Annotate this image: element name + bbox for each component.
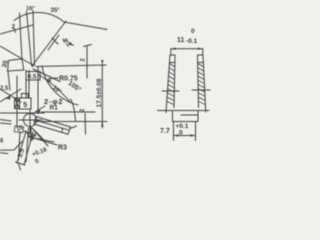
svg-text:10°: 10°	[51, 85, 62, 96]
wire: chamfer parallel segment	[48, 35, 59, 50]
tab box above 5-box	[22, 94, 29, 99]
wire: tick on upper dim extension	[84, 45, 92, 79]
wire: tick under 2 label top-left	[14, 28, 16, 33]
svg-text:+0.18: +0.18	[32, 147, 49, 158]
wire: hub bottom extra line	[24, 131, 36, 136]
wire: circle crosshair	[19, 110, 42, 133]
wire: angular dimension arc top	[14, 12, 64, 22]
wire: bar inner line	[35, 120, 70, 130]
svg-text:0.5: 0.5	[28, 74, 37, 81]
svg-text:3.5: 3.5	[17, 147, 27, 158]
wire: 35 deg flank up-right from vertex	[32, 21, 66, 66]
wire: steep drop from arc to bar end	[71, 99, 76, 121]
insert pad rectangle top-left	[8, 59, 24, 71]
svg-text:R1: R1	[50, 105, 59, 112]
box with 5	[20, 98, 32, 109]
svg-text:17.5±0.08: 17.5±0.08	[96, 78, 103, 107]
right wall hatching	[198, 64, 206, 105]
svg-text:2: 2	[12, 24, 16, 31]
svg-text:35°: 35°	[51, 8, 61, 14]
wire: crossing leaders left	[0, 89, 21, 102]
wire: hub bottom diagonals	[30, 127, 32, 141]
wire: upper-left diagonal line	[0, 25, 33, 34]
wire: plate top line	[0, 112, 44, 114]
wire: left short horizontals	[0, 120, 11, 122]
wire: right flank line of 16 deg wedge	[33, 11, 35, 66]
svg-text:2: 2	[80, 108, 86, 112]
wire: R3 leader	[29, 137, 57, 146]
left wall outline	[166, 55, 175, 113]
wire: vertical pair below vertex	[25, 70, 27, 97]
box around 0.5	[26, 72, 40, 81]
svg-text:2.5: 2.5	[0, 86, 9, 92]
hub box hatched	[15, 98, 20, 109]
box around 10 label	[14, 126, 23, 133]
svg-text:7.7: 7.7	[160, 128, 170, 135]
wire: inner diagonal line from hub to tip	[38, 75, 70, 103]
base outline	[173, 111, 199, 122]
wire: left flank line of 16 deg wedge	[27, 11, 32, 65]
wire: leader from R0.75 text	[47, 78, 58, 80]
node: vertex knot	[31, 64, 34, 67]
wire: center ticks	[162, 90, 210, 91]
svg-text:0: 0	[179, 130, 183, 137]
wire: long bottom horizontal	[158, 110, 210, 112]
wire: hub bottom cluster strokes	[27, 130, 43, 140]
wire: vertical dimension line 17.5	[101, 65, 103, 129]
wire: third near-vertical line left	[20, 13, 23, 60]
hole circle 2-phi2	[24, 114, 37, 127]
svg-text:0: 0	[191, 28, 195, 35]
left wall hatching	[167, 64, 175, 105]
wire: tick near 2 at bar level	[84, 114, 87, 135]
wire: extension lines down	[174, 122, 196, 141]
wire: large profile arc 105deg	[42, 66, 78, 105]
bar lever rotated rect	[34, 117, 71, 135]
wire: bar end extra line	[70, 126, 77, 129]
wire: horizontal top line from vertex to right	[36, 65, 106, 67]
svg-text:6: 6	[0, 139, 4, 145]
wire: top dim line 11	[171, 48, 203, 50]
svg-text:0: 0	[35, 158, 41, 165]
wire: mid horizontal line	[42, 111, 95, 113]
arrowheads	[5, 42, 203, 139]
wire: slot dim tick	[16, 162, 26, 165]
wire: leader to hole from R1	[35, 106, 45, 112]
wire: lower long horizontal extension line	[34, 121, 107, 123]
svg-text:5: 5	[23, 102, 27, 109]
wire: chamfer dim arrow line	[52, 38, 74, 46]
wire: bottom dim line 7.7	[174, 135, 196, 137]
wire: lower-left diagonal into vertex	[0, 46, 31, 64]
wire: left bottom leader	[0, 142, 22, 154]
node: vertex cluster small lines	[33, 69, 60, 82]
svg-text:R3: R3	[58, 145, 67, 152]
wire: slot diagonal lines	[19, 132, 21, 161]
svg-text:2: 2	[81, 58, 87, 62]
wire: vertical section edge x38	[37, 67, 39, 114]
right wall outline	[198, 55, 206, 112]
svg-text:1: 1	[60, 128, 65, 135]
svg-text:16°: 16°	[26, 6, 36, 12]
wire: leader below insert rect	[8, 72, 10, 91]
wire: line from flank top to right	[64, 22, 107, 30]
svg-text:-0.1: -0.1	[186, 38, 198, 45]
svg-text:11: 11	[177, 37, 185, 44]
